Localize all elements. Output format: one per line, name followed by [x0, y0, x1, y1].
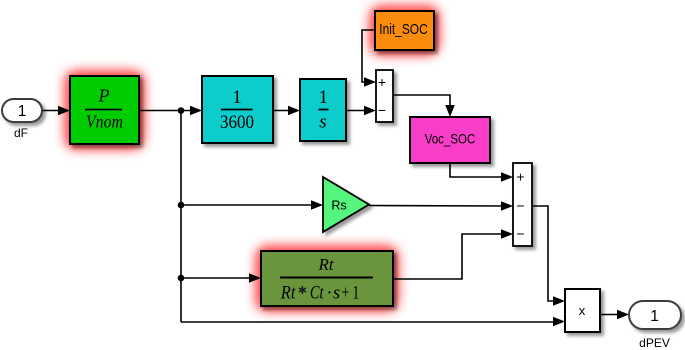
selection glow for gain block P/Vnom: [66, 72, 143, 148]
svg-text:+: +: [378, 74, 386, 90]
svg-text:Rs: Rs: [331, 199, 346, 213]
product block x: [565, 289, 600, 332]
wire vertical branch line: [180, 111, 182, 323]
svg-text:+: +: [516, 169, 524, 185]
svg-text:−: −: [378, 102, 386, 118]
constant block Init_SOC: [375, 11, 434, 50]
label dPEV: [639, 336, 670, 350]
node branch junction after P/Vnom: [178, 107, 185, 114]
node branch junction for transfer function Rt: [178, 275, 185, 282]
wire branch to gain Rs: [181, 200, 323, 210]
svg-text:Rt: Rt: [317, 255, 334, 274]
wire sum1 to lookup table Voc_SOC: [393, 95, 455, 117]
svg-text:−: −: [516, 226, 524, 242]
svg-text:Vnom: Vnom: [86, 112, 123, 132]
svg-text:1: 1: [18, 103, 27, 120]
gain block P/Vnom: [70, 76, 139, 144]
svg-text:s: s: [333, 284, 340, 304]
svg-text:Ct: Ct: [310, 284, 324, 304]
svg-text:Voc_SOC: Voc_SOC: [425, 131, 476, 147]
wire sum2 to product block top input: [532, 206, 565, 306]
transfer function block Rt: [261, 251, 393, 306]
inport 1 (dF): [2, 99, 42, 122]
svg-text:x: x: [579, 303, 586, 318]
wire gain 1/3600 to integrator 1/s: [273, 106, 300, 116]
wire gain Rs to sum2 middle minus input: [369, 201, 513, 211]
svg-text:−: −: [516, 198, 524, 214]
selection glow for transfer function block Rt: [257, 247, 397, 310]
svg-text:P: P: [98, 86, 110, 106]
wire Voc_SOC to sum2 plus input: [450, 163, 513, 182]
selection glow for constant Init_SOC: [371, 7, 438, 54]
integrator block 1/s: [300, 79, 346, 141]
svg-text:Rt: Rt: [280, 284, 296, 304]
svg-text:1: 1: [232, 87, 242, 108]
svg-text:3600: 3600: [220, 112, 254, 133]
wire branch to transfer function Rt: [181, 273, 261, 283]
svg-text:s: s: [319, 112, 326, 133]
svg-text:Init_SOC: Init_SOC: [379, 22, 428, 38]
svg-text:dPEV: dPEV: [639, 336, 670, 350]
wire Init_SOC to sum1 plus input: [362, 30, 376, 87]
svg-text:+ 1: + 1: [342, 284, 360, 304]
label dF: [14, 126, 28, 140]
wire branch to product block bottom input: [181, 317, 565, 327]
sum block sum2: [513, 163, 532, 246]
svg-text:·: ·: [326, 284, 332, 304]
wire integrator 1/s to sum1 minus input: [346, 106, 376, 116]
svg-text:dF: dF: [14, 126, 28, 140]
node branch junction for gain Rs: [178, 202, 185, 209]
sum block sum1: [376, 70, 393, 122]
lookup table block Voc_SOC: [410, 117, 490, 163]
wire product to outport dPEV: [600, 310, 629, 320]
outport 1 (dPEV): [629, 301, 681, 329]
wire gain P/Vnom to gain 1/3600: [139, 106, 202, 116]
gain block 1/3600: [202, 76, 273, 143]
wire transfer function Rt to sum2 bottom minus input: [393, 229, 513, 279]
gain block Rs (triangle): [323, 177, 369, 232]
svg-text:1: 1: [319, 87, 329, 108]
wire inport dF to gain P/Vnom: [42, 106, 70, 116]
svg-text:1: 1: [650, 308, 659, 325]
